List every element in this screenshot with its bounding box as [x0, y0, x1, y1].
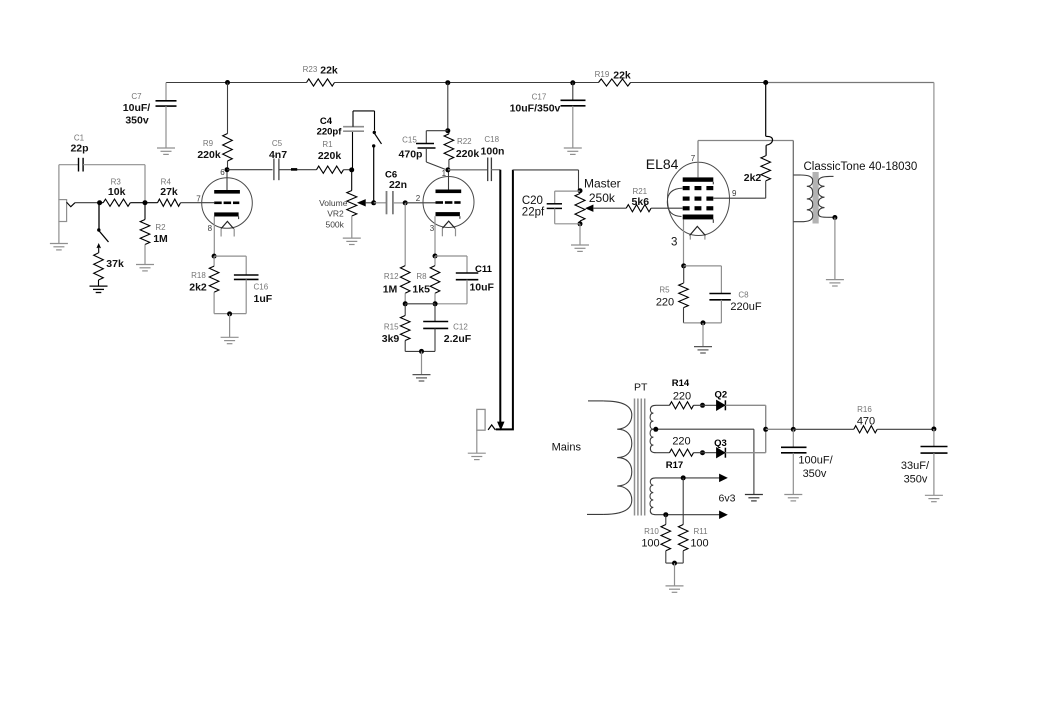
svg-text:22k: 22k [320, 65, 338, 77]
svg-text:EL84: EL84 [646, 156, 679, 172]
svg-text:R2: R2 [155, 223, 166, 232]
diode Q2 [714, 390, 727, 411]
wire Q2 out [725, 405, 765, 429]
svg-text:R16: R16 [857, 405, 872, 414]
capacitor C20 [522, 191, 580, 224]
wire to V2 grid pin 2 [405, 202, 435, 204]
capacitor C1 [59, 134, 145, 203]
resistor R15 [382, 304, 410, 352]
resistor 37k [94, 253, 124, 286]
speaker jack J2 [477, 409, 496, 453]
node R14 Q2 [700, 403, 705, 408]
svg-text:R8: R8 [416, 272, 427, 281]
svg-text:R22: R22 [457, 137, 472, 146]
ground (EL84 cathode) [694, 347, 712, 353]
svg-text:C16: C16 [254, 283, 269, 292]
wire cathode bottom el84 [684, 322, 722, 324]
capacitor C11 [435, 256, 495, 304]
wire OT primary drop [792, 141, 794, 430]
svg-text:R12: R12 [384, 272, 399, 281]
resistor 220 lower [670, 435, 694, 456]
resistor R3 [100, 178, 145, 207]
wire master feed [496, 170, 513, 430]
svg-text:R11: R11 [693, 527, 708, 536]
svg-text:500k: 500k [325, 219, 344, 229]
svg-text:100uF/: 100uF/ [798, 455, 833, 467]
svg-text:100: 100 [641, 538, 659, 550]
svg-text:R9: R9 [203, 139, 214, 148]
resistor R12 [383, 266, 410, 304]
arrow NFB [498, 422, 504, 430]
node A input [97, 200, 102, 205]
capacitor C4 [317, 111, 375, 170]
arrow 6v3 bottom [720, 511, 727, 518]
wire screen to pin 9 [713, 197, 765, 199]
wire to ground 1 [229, 314, 231, 337]
ground (speaker jack) [468, 453, 486, 459]
svg-text:VR2: VR2 [327, 209, 344, 219]
svg-text:10uF/350v: 10uF/350v [510, 102, 561, 114]
wire C5 to R1 [279, 168, 317, 170]
node B grid1 [143, 200, 148, 205]
resistor R4 [145, 178, 181, 207]
wire R14 Q2 [694, 404, 717, 406]
node V1 cathode [212, 254, 217, 259]
capacitor C6 [385, 170, 407, 215]
node 33uF [931, 427, 936, 432]
node heater bottom [663, 512, 668, 517]
svg-text:R5: R5 [659, 286, 670, 295]
capacitor C18 [481, 135, 505, 181]
ground (VR2) [343, 238, 361, 244]
svg-text:3: 3 [430, 224, 435, 233]
node R1 volume [349, 167, 354, 172]
ground (V1 cathode) [221, 337, 239, 343]
node V1 anode [225, 167, 230, 172]
pin 7 label [196, 195, 201, 204]
node EL84 cathode [681, 263, 686, 268]
node cathode1 ground [227, 311, 232, 316]
capacitor 100uF [781, 429, 834, 494]
svg-text:5k6: 5k6 [632, 196, 650, 208]
ground (OT secondary) [826, 280, 844, 286]
transformer PT mains primary [552, 401, 632, 515]
node master bottom [578, 221, 583, 226]
transformer PT core [634, 382, 648, 516]
wire 220 Q3 [694, 452, 717, 454]
svg-text:220: 220 [656, 297, 674, 309]
transformer PT HT secondary [650, 405, 669, 452]
svg-text:C15: C15 [402, 136, 417, 145]
svg-text:R19: R19 [595, 70, 610, 79]
svg-text:33uF/: 33uF/ [901, 460, 930, 472]
resistor R8 [412, 256, 439, 304]
pin 1 label [442, 169, 447, 178]
diode Q3 [714, 438, 727, 458]
wire OT sec gnd [834, 218, 836, 280]
resistor 2k2 screen [744, 156, 771, 198]
resistor R18 [189, 256, 219, 314]
svg-text:C11: C11 [475, 264, 493, 275]
svg-text:C5: C5 [272, 139, 283, 148]
svg-text:C7: C7 [131, 92, 142, 101]
ground (37k) [90, 286, 108, 292]
svg-text:350v: 350v [904, 474, 928, 486]
svg-text:R10: R10 [644, 527, 659, 536]
svg-text:C8: C8 [738, 291, 749, 300]
transformer OT secondary [804, 161, 918, 218]
wire screen supply [766, 83, 773, 156]
label 6v3 [719, 493, 736, 505]
capacitor C8 [684, 266, 762, 323]
node B+ R9 [225, 80, 230, 85]
capacitor C16 [214, 256, 273, 314]
svg-text:10k: 10k [108, 186, 126, 198]
wire wiper to C6 [374, 202, 387, 204]
triode V2 [423, 177, 474, 237]
node 220 Q3 [700, 450, 705, 455]
svg-text:350v: 350v [803, 468, 827, 480]
wire C6 to grid node [393, 202, 405, 204]
svg-text:22k: 22k [613, 70, 631, 82]
svg-text:1k5: 1k5 [412, 284, 430, 296]
node B+ C17 [570, 80, 575, 85]
capacitor C15 [399, 131, 448, 170]
node R22 C15 [445, 128, 450, 133]
wire cathode1 bottom [214, 313, 246, 315]
transformer OT primary [793, 175, 812, 222]
ground (V2 cathode) [413, 375, 431, 381]
node cathode junction [433, 301, 438, 306]
svg-text:1M: 1M [383, 284, 398, 296]
wire R21 to EL84 g1 [651, 207, 683, 209]
ground (C17) [564, 148, 582, 154]
svg-text:3k9: 3k9 [382, 333, 400, 345]
input jack J1 [59, 200, 75, 244]
node cathode ground [419, 349, 424, 354]
resistor R11 [678, 478, 708, 563]
resistor R22 [444, 83, 479, 170]
svg-text:C20: C20 [522, 195, 543, 207]
pin 3 label [430, 224, 435, 233]
node OT secondary [832, 215, 837, 220]
svg-text:R17: R17 [666, 460, 683, 471]
resistor R19 [595, 70, 631, 87]
svg-text:R15: R15 [384, 323, 399, 332]
svg-text:Q3: Q3 [714, 438, 727, 449]
pin 6 label [220, 168, 225, 177]
resistor R16 [854, 405, 877, 433]
wire jack to node A [75, 202, 100, 204]
switch S2 (bright) [372, 111, 382, 203]
svg-text:37k: 37k [106, 258, 124, 270]
ground (100uF) [784, 495, 802, 501]
switch S1 [97, 203, 109, 253]
wire heater join [666, 562, 683, 564]
wire Q3 out [725, 429, 765, 452]
wire cathode bottom [405, 350, 435, 352]
svg-text:2k2: 2k2 [744, 172, 762, 184]
capacitor 33uF [901, 429, 948, 495]
svg-text:R1: R1 [322, 140, 333, 149]
resistor R21 [626, 187, 651, 212]
svg-text:220: 220 [672, 435, 690, 447]
wire bias join [405, 303, 435, 305]
wire V2 anode [448, 170, 450, 190]
resistor R5 [656, 266, 688, 323]
svg-text:C18: C18 [484, 135, 499, 144]
resistor R9 [197, 83, 232, 170]
node V2 cathode [433, 254, 438, 259]
pin 3 label EL84 [671, 237, 677, 249]
svg-text:ClassicTone 40-18030: ClassicTone 40-18030 [804, 161, 918, 173]
svg-text:220k: 220k [197, 149, 221, 161]
node bias junction [403, 301, 408, 306]
triode V1 [202, 178, 253, 237]
svg-text:350v: 350v [125, 115, 149, 127]
node heater gnd [672, 561, 677, 566]
ground (heater) [666, 586, 684, 592]
svg-text:4n7: 4n7 [269, 149, 287, 161]
svg-text:27k: 27k [160, 186, 178, 198]
pentode EL84 V3 [646, 156, 730, 240]
wire V1 anode [226, 170, 228, 190]
wire B+ rail top [166, 83, 934, 429]
wire R16 out [877, 428, 934, 430]
wire B+ to R16 [793, 428, 854, 430]
capacitor C17 [510, 83, 586, 149]
wire master gnd [579, 224, 581, 245]
svg-text:C1: C1 [74, 134, 85, 143]
svg-text:PT: PT [634, 382, 648, 394]
wire heater gnd [674, 563, 676, 586]
pin 2 label [416, 194, 421, 203]
svg-text:Master: Master [584, 177, 621, 191]
resistor R1 [317, 140, 344, 173]
capacitor C7 [123, 83, 177, 149]
node el84 gnd [701, 320, 706, 325]
node wiper [371, 200, 376, 205]
svg-text:22pf: 22pf [522, 206, 545, 218]
node master top [578, 188, 583, 193]
resistor R23 [303, 65, 338, 87]
svg-text:C17: C17 [532, 93, 547, 102]
svg-text:22n: 22n [389, 179, 407, 191]
svg-text:10uF/: 10uF/ [123, 102, 151, 114]
svg-text:1uF: 1uF [254, 293, 273, 305]
wire to B+ node [766, 428, 794, 430]
svg-text:R14: R14 [672, 378, 690, 389]
pin 9 label EL84 [732, 189, 737, 198]
pin 7 label EL84 [691, 154, 696, 163]
wire el84 gnd [702, 323, 704, 347]
wire EL84 plate [698, 141, 793, 178]
svg-text:100: 100 [690, 538, 708, 550]
arrow 6v3 top [720, 474, 727, 481]
wire NFB down [499, 170, 501, 423]
ground (C7) [157, 148, 175, 154]
wire V1 cathode [213, 217, 215, 257]
node heater top [681, 475, 686, 480]
svg-text:6v3: 6v3 [719, 493, 736, 505]
resistor R10 [641, 515, 670, 563]
svg-text:220pf: 220pf [317, 127, 343, 138]
node B+ reservoir [791, 427, 796, 432]
node V2 anode [445, 167, 450, 172]
svg-text:470: 470 [857, 416, 875, 428]
ground (33uF) [925, 495, 943, 501]
pin 8 label [208, 224, 213, 233]
svg-text:C12: C12 [453, 323, 468, 332]
svg-text:10uF: 10uF [469, 282, 494, 294]
node B+ R22 [445, 80, 450, 85]
node rectifier join [763, 427, 768, 432]
svg-text:2k2: 2k2 [189, 282, 207, 294]
wire anode to C5 [227, 169, 273, 171]
wire V2 cathode [434, 216, 436, 256]
svg-text:9: 9 [732, 189, 737, 198]
wire R4 to V1 grid [181, 202, 215, 204]
node center tap [653, 427, 658, 432]
wire CT ground [753, 429, 755, 494]
wire grid bias [404, 203, 406, 266]
wire anode to C18 [448, 169, 488, 171]
wire EL84 cathode [683, 219, 685, 266]
svg-text:3: 3 [671, 237, 677, 249]
svg-text:R21: R21 [632, 187, 647, 196]
capacitor C5 [269, 139, 287, 180]
ground (master) [571, 245, 589, 251]
ground (R2) [136, 265, 154, 271]
node B+ screen [763, 80, 768, 85]
svg-text:8: 8 [208, 224, 213, 233]
potentiometer VR2 Volume [319, 170, 374, 238]
svg-text:2.2uF: 2.2uF [444, 333, 472, 345]
svg-text:R18: R18 [191, 271, 206, 280]
wire center tap [653, 428, 754, 430]
node V2 grid [403, 200, 408, 205]
ground (center tap) [745, 495, 763, 501]
svg-text:6: 6 [220, 168, 225, 177]
transformer OT core [813, 172, 819, 224]
wire to master [513, 170, 579, 191]
svg-text:220k: 220k [318, 150, 342, 162]
svg-text:Mains: Mains [552, 442, 582, 454]
svg-text:220uF: 220uF [730, 301, 761, 313]
svg-text:220k: 220k [456, 148, 480, 160]
ground (input jack) [50, 244, 68, 250]
svg-text:C4: C4 [320, 116, 333, 127]
svg-text:250k: 250k [589, 191, 616, 205]
wire to ground [421, 351, 423, 374]
svg-text:R23: R23 [303, 65, 318, 74]
svg-text:Q2: Q2 [714, 390, 727, 401]
svg-text:220: 220 [673, 391, 691, 403]
svg-text:Volume: Volume [319, 198, 348, 208]
svg-text:22p: 22p [70, 143, 88, 155]
svg-text:2: 2 [416, 194, 421, 203]
svg-text:1M: 1M [153, 233, 168, 245]
svg-text:7: 7 [691, 154, 696, 163]
wire C18 to NFB line [491, 169, 500, 171]
svg-text:100n: 100n [481, 146, 505, 158]
svg-text:470p: 470p [399, 149, 423, 161]
transformer PT heater winding [650, 460, 720, 515]
resistor R14 [670, 378, 694, 409]
potentiometer Master 250k [575, 177, 626, 224]
resistor R2 [140, 203, 168, 265]
capacitor C12 [423, 304, 472, 352]
svg-text:7: 7 [196, 195, 201, 204]
wire R1 to node [344, 169, 352, 171]
